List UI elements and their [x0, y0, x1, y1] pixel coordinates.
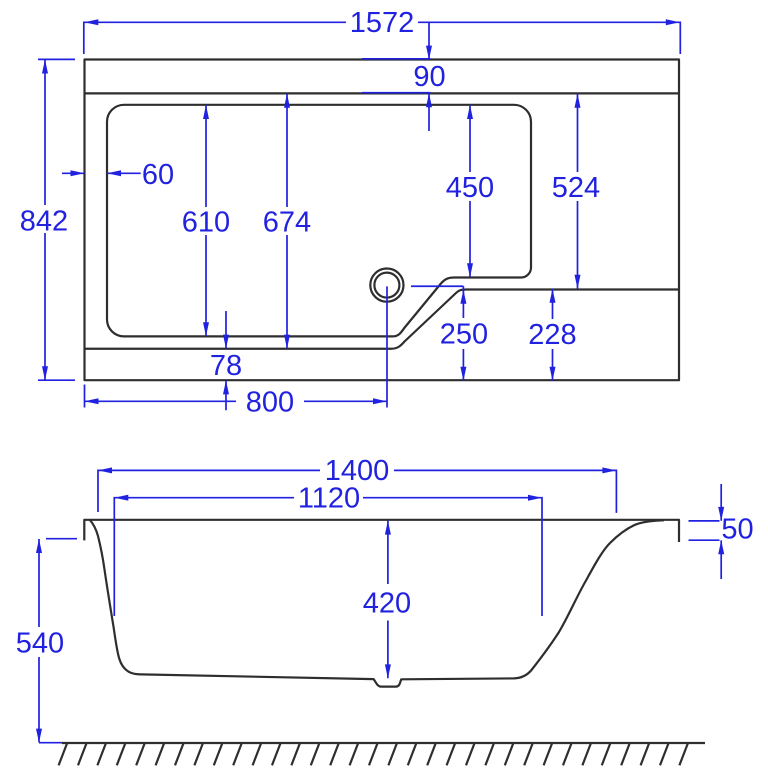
svg-text:540: 540 [16, 628, 64, 660]
ground line [62, 742, 705, 744]
inner tub outline (plan) [107, 105, 531, 337]
dimension 78 (bottom rim band, plan) [210, 311, 242, 410]
dimension 674 (rim-to-rim width, plan) [263, 94, 311, 349]
bath body outline (side) [90, 520, 664, 687]
dimension 610 (inner width, plan) [182, 105, 230, 336]
svg-text:610: 610 [182, 207, 230, 239]
top rim line (plan) [85, 92, 680, 94]
svg-text:90: 90 [413, 61, 445, 93]
svg-text:1120: 1120 [298, 483, 360, 515]
dimension 228 (seat depth, plan) [528, 289, 576, 381]
bath top edge with end ticks (side) [84, 520, 679, 542]
dimension 540 (overall height, side) [16, 539, 77, 743]
dimension 800 (drain position, plan) [85, 286, 388, 418]
dimension 420 (inner depth, side) [363, 521, 411, 679]
dimension 524 (rim to seat line, plan) [552, 94, 600, 289]
svg-text:524: 524 [552, 172, 600, 204]
ground hatching [59, 744, 688, 766]
svg-text:1572: 1572 [350, 7, 415, 39]
svg-text:78: 78 [210, 350, 242, 382]
bottom rim line + seat step line (plan) [85, 290, 680, 349]
dimension 90 (rim width top, plan) [362, 23, 446, 131]
svg-text:60: 60 [142, 159, 174, 191]
dimension 250 (drain to edge, plan) with drain leader [411, 286, 488, 381]
svg-text:842: 842 [20, 206, 68, 238]
dimension 1400 (top length, side) [98, 455, 616, 513]
dimension 60 (rim width left, plan) [62, 159, 174, 191]
bath outer rectangle (plan) [85, 60, 680, 381]
dimension 50 (rim thickness, side) [689, 484, 754, 579]
dimension 1572 (overall length, plan) [84, 7, 681, 54]
dimension 1120 (inner length, side) [114, 483, 542, 616]
svg-text:250: 250 [440, 319, 488, 351]
drain outer circle (plan) [370, 269, 403, 302]
dimension 450 (shower end inner width, plan) [446, 105, 494, 277]
svg-text:228: 228 [528, 319, 576, 351]
svg-text:800: 800 [246, 386, 294, 418]
dimension 842 (overall width, plan) [17, 59, 75, 380]
svg-text:420: 420 [363, 588, 411, 620]
drain inner circle (plan) [374, 273, 399, 298]
svg-text:674: 674 [263, 207, 311, 239]
svg-text:450: 450 [446, 172, 494, 204]
svg-text:50: 50 [721, 514, 753, 546]
